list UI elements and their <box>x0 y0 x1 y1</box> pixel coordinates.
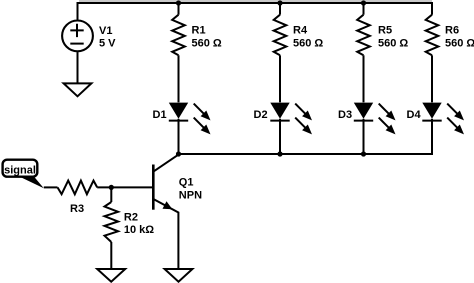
svg-text:5 V: 5 V <box>99 38 116 50</box>
node: junction dot rail/D3 <box>361 151 366 156</box>
LED D2 triangle <box>270 103 289 119</box>
node: junction dot base/R2 <box>109 185 114 190</box>
Q1 emitter lead <box>154 199 179 269</box>
svg-text:Q1: Q1 <box>179 177 194 189</box>
LED D3 triangle <box>354 103 373 119</box>
svg-text:R6: R6 <box>445 24 459 36</box>
resistor R1 <box>172 15 185 56</box>
V1 minus sign <box>70 43 83 45</box>
transistor Q1 bar <box>152 165 155 210</box>
resistor R6 <box>426 15 439 56</box>
node: junction dot rail/D1/collector <box>176 151 181 156</box>
resistor R3 <box>58 181 98 195</box>
Q1 emitter arrowhead <box>163 201 173 209</box>
wire: R1 to D1 <box>178 55 180 102</box>
ground under V1 <box>64 83 92 96</box>
LED D3 emission arrow 1 <box>379 104 396 121</box>
svg-text:D3: D3 <box>338 109 352 121</box>
wire: R5 to D3 <box>363 55 365 102</box>
resistor R2 <box>105 202 119 242</box>
resistor R4 <box>274 15 287 56</box>
wire: bottom LED rail to Q1 collector <box>179 121 433 154</box>
node: junction dot rail/R1 <box>176 0 181 5</box>
node: junction dot rail/D2 <box>277 151 282 156</box>
svg-text:R1: R1 <box>192 24 206 36</box>
svg-text:R3: R3 <box>70 203 84 215</box>
ground under R2 <box>97 269 125 282</box>
LED D2 emission arrow 1 <box>295 104 312 121</box>
svg-text:V1: V1 <box>99 25 112 37</box>
LED D2 emission arrow 2 <box>295 118 312 135</box>
wire: R4 to D2 <box>279 55 281 102</box>
wire: rail stub to R1 <box>178 3 180 15</box>
wire: D3 to bottom rail <box>363 119 365 154</box>
wire: D1 to bottom rail <box>178 119 180 154</box>
node: junction dot rail/R5 <box>361 0 366 5</box>
svg-text:R4: R4 <box>293 24 308 36</box>
resistor R5 <box>357 15 370 56</box>
svg-text:D4: D4 <box>407 109 422 121</box>
wire: rail stub to R4 <box>279 3 281 15</box>
LED D4 emission arrow 1 <box>447 104 464 121</box>
LED D3 emission arrow 2 <box>379 118 396 135</box>
wire: R2 to ground <box>110 242 112 269</box>
wire: signal to R3 <box>44 186 58 188</box>
wire: V1 bottom to ground <box>77 52 79 83</box>
svg-text:560 Ω: 560 Ω <box>445 38 474 50</box>
signal flag tail <box>20 177 44 189</box>
wire: top supply rail from V1 to R6 <box>78 3 433 20</box>
wire: R6 to D4 <box>431 55 433 102</box>
voltage source V1 circle <box>62 21 93 52</box>
V1 plus sign <box>70 24 83 37</box>
svg-text:NPN: NPN <box>179 189 202 201</box>
wire: junction to R2 <box>110 187 112 202</box>
LED D1 emission arrow 1 <box>194 104 211 121</box>
wire: D2 to bottom rail <box>279 119 281 154</box>
Q1 base lead wire from R3 <box>97 186 153 188</box>
svg-text:D1: D1 <box>153 109 167 121</box>
LED D4 triangle <box>422 103 441 119</box>
svg-text:D2: D2 <box>254 109 268 121</box>
svg-text:R2: R2 <box>124 212 138 224</box>
LED D2 cathode bar <box>270 120 289 122</box>
svg-text:560 Ω: 560 Ω <box>192 38 222 50</box>
wire: D4 to bottom rail <box>431 119 433 154</box>
svg-text:560 Ω: 560 Ω <box>293 38 323 50</box>
LED D4 emission arrow 2 <box>447 118 464 135</box>
node: junction dot rail/R4 <box>277 0 282 5</box>
svg-text:10 kΩ: 10 kΩ <box>124 224 154 236</box>
Q1 collector lead <box>154 155 179 172</box>
signal flag callout box <box>3 160 38 177</box>
LED D1 cathode bar <box>169 120 188 122</box>
wire: rail stub to R5 <box>363 3 365 15</box>
svg-text:R5: R5 <box>378 24 392 36</box>
ground under Q1 emitter <box>165 269 193 282</box>
LED D1 triangle <box>169 103 188 119</box>
svg-text:signal: signal <box>4 164 36 176</box>
svg-text:560 Ω: 560 Ω <box>378 38 408 50</box>
LED D1 emission arrow 2 <box>194 118 211 135</box>
LED D4 cathode bar <box>422 120 441 122</box>
LED D3 cathode bar <box>354 120 373 122</box>
